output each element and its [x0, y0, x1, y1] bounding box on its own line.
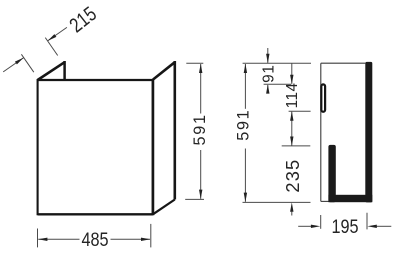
arrow left at right tick [367, 225, 376, 228]
arrow right at left tick [311, 225, 320, 228]
left side panel flap (top visible triangle) [38, 61, 65, 80]
left edge [320, 63, 322, 201]
left arrow tail [298, 225, 311, 227]
E2 extension (91 bottom) [264, 83, 292, 85]
arrow up at E2 (91 bottom) [266, 84, 269, 93]
arrow up (tip at top ext) [199, 64, 202, 73]
bottom extension line [185, 198, 204, 200]
dimension 114 (outside arrows) [291, 63, 293, 146]
arrow up 591 side [244, 64, 247, 73]
right extension line [150, 224, 152, 248]
arrow down at E1 (91 top) [266, 54, 269, 63]
E4 extension (235 top) [282, 145, 311, 147]
arrow down 591 side [244, 193, 247, 202]
svg-text:114: 114 [284, 82, 301, 108]
svg-text:235: 235 [283, 159, 303, 193]
svg-text:91: 91 [260, 64, 277, 83]
right arrow tail [377, 225, 392, 227]
E1 top extension [243, 62, 311, 64]
left extension line [37, 229, 39, 248]
bottom edge left stub [321, 200, 330, 202]
arrow up at E5 (235 bottom) + tail [290, 202, 293, 211]
profile outline (thin) [321, 63, 366, 201]
dimension 195 (bottom of side view, outside arrows) [298, 213, 391, 230]
arrow down (tip at bottom ext) [199, 190, 202, 199]
svg-text:591: 591 [234, 109, 252, 141]
arrow up at E3 (114 bottom) [290, 111, 293, 120]
right side panel (oblique) [153, 61, 175, 214]
extension tick lower [21, 54, 33, 72]
bottom thick bar of U [328, 195, 372, 202]
front return thick bar (left of U) [328, 145, 335, 202]
tail below E5 [291, 212, 293, 216]
dimension 485 (width, bottom of left drawing) [38, 224, 151, 248]
svg-text:485: 485 [81, 229, 108, 251]
front panel face [38, 79, 153, 215]
E3 extension (114 bottom) [289, 110, 311, 112]
right tick [366, 213, 368, 230]
dimension 591 (side view) [244, 64, 246, 202]
svg-text:195: 195 [331, 216, 358, 238]
top extension line [186, 62, 203, 64]
svg-text:591: 591 [191, 113, 209, 145]
extension lines of side-view dimension chains [243, 63, 312, 202]
back panel thick bar (right) [365, 62, 372, 203]
top edge [321, 62, 366, 64]
dim line lower segment [200, 150, 202, 199]
dim line left segment [38, 238, 79, 240]
dim line tail lower-left [3, 58, 24, 72]
arrow right (tip at right ext) [141, 238, 150, 241]
dim line right segment [111, 238, 151, 240]
dim line tail upper-right [48, 27, 67, 41]
arrow down at E2 (114 top) [290, 75, 293, 84]
dimension 215 (depth, diagonal at top-left) [3, 27, 67, 72]
extension tick upper [45, 38, 57, 56]
arrowhead upper (points down-left, tip at upper tick) [48, 34, 57, 41]
arrow down at E4 (235 top) [290, 137, 293, 146]
left tick [320, 215, 322, 229]
dimension 91 (outside arrows) [267, 48, 269, 94]
E5 bottom extension [243, 201, 311, 203]
dim line upper segment [200, 64, 202, 114]
arrowhead lower (points up-right, tip at lower tick) [15, 58, 24, 65]
arrow left (tip at left ext) [38, 238, 47, 241]
wall bracket (rounded slot) on left edge [321, 84, 325, 111]
dimension 591 (left drawing height) [185, 63, 204, 199]
